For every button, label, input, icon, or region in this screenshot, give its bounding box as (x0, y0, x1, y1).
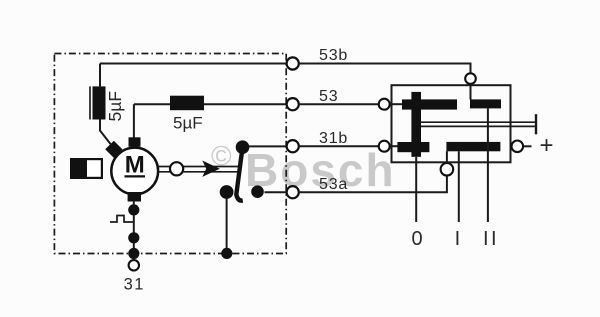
motor brush (top) (129, 137, 141, 147)
terminal + connector circle (512, 141, 524, 153)
drive connector circle (170, 162, 183, 175)
mechanical link double line from motor (158, 167, 240, 172)
connector circle at switch top (465, 73, 476, 84)
wire 53b horizontal (100, 63, 287, 65)
wire 53b to switch S1 (299, 64, 471, 74)
wire inside switch from 53a connector (446, 151, 448, 163)
terminal 53 connector circle (287, 98, 299, 110)
wire below motor to terminal 31 (133, 201, 135, 260)
wire into switch top (470, 84, 472, 100)
connector circle at switch left (53) (379, 99, 390, 110)
wire lever contact to boundary (226, 198, 228, 248)
terminal 53b connector circle (287, 57, 299, 69)
wiper shaft end bar (535, 114, 537, 134)
connector circle at switch bottom (53a) (441, 163, 454, 176)
svg-text:0: 0 (411, 228, 422, 250)
wire 53b drop to capacitor C1 (99, 64, 101, 87)
park switch common dot (236, 140, 250, 154)
terminal 31 connector circle (129, 260, 139, 270)
switch contact bar bottom right (+) (446, 142, 500, 151)
junction dot on boundary (128, 248, 139, 259)
park switch lever (236, 149, 243, 201)
drive direction arrow (202, 161, 220, 177)
junction dot (128, 232, 139, 243)
wire stub at + (524, 145, 532, 147)
wire 53 left segment (134, 103, 170, 105)
wire 53 right segment (204, 103, 287, 105)
motor M1 body (111, 148, 158, 195)
switch S1 rotor bar (vertical) (411, 92, 421, 157)
switch contact bar 31b row (397, 142, 429, 152)
park switch contact dot (left) (220, 185, 234, 199)
suppressor block (black/white rectangle) (70, 158, 102, 179)
capacitor C2 5uF (horizontal) (170, 96, 204, 111)
connector circle at switch left (31b) (379, 141, 390, 152)
svg-text:M: M (125, 152, 145, 179)
svg-text:I: I (455, 228, 461, 250)
wire 53a to switch S1 (299, 176, 447, 192)
switch S1 housing (392, 85, 511, 162)
junction dot (128, 204, 139, 215)
svg-text:31b: 31b (319, 130, 348, 147)
dashed component boundary box (54, 54, 286, 254)
capacitor C1 5uF (vertical) (90, 86, 106, 119)
svg-text:5µF: 5µF (105, 91, 125, 122)
svg-text:+: + (540, 132, 554, 159)
motor brush (upper-left, diagonal) (105, 141, 122, 158)
svg-text:5µF: 5µF (173, 114, 203, 133)
position line II (487, 108, 489, 222)
wire 53a from right contact (265, 191, 287, 193)
svg-text:53: 53 (319, 88, 338, 105)
wire 31b from switch common (249, 145, 287, 147)
motor brush (bottom) (128, 192, 141, 202)
junction dot on boundary (221, 248, 232, 259)
limit switch cam glyph (110, 216, 133, 223)
svg-text:31: 31 (124, 276, 145, 294)
terminal 53a connector circle (287, 186, 299, 198)
motor M underline (125, 175, 146, 177)
wire into switch (53) (390, 103, 404, 105)
park switch contact dot (right) (251, 185, 264, 198)
svg-text:53b: 53b (319, 47, 348, 64)
position line 0 (415, 157, 417, 222)
wire 53 to switch S1 (299, 103, 379, 105)
wire capacitor C1 to brush (100, 120, 111, 145)
svg-text:53a: 53a (319, 176, 348, 193)
wire 31b to switch S1 (299, 145, 379, 147)
wire into switch (31b) (390, 145, 398, 147)
wiper shaft double line (421, 122, 535, 126)
svg-text:II: II (483, 228, 499, 250)
position line I (458, 151, 460, 222)
switch contact bar top right (II) (470, 99, 501, 108)
switch contact bar 53 row (402, 99, 457, 109)
terminal 31b connector circle (287, 140, 299, 152)
wire 53 vertical to top brush (133, 104, 135, 138)
